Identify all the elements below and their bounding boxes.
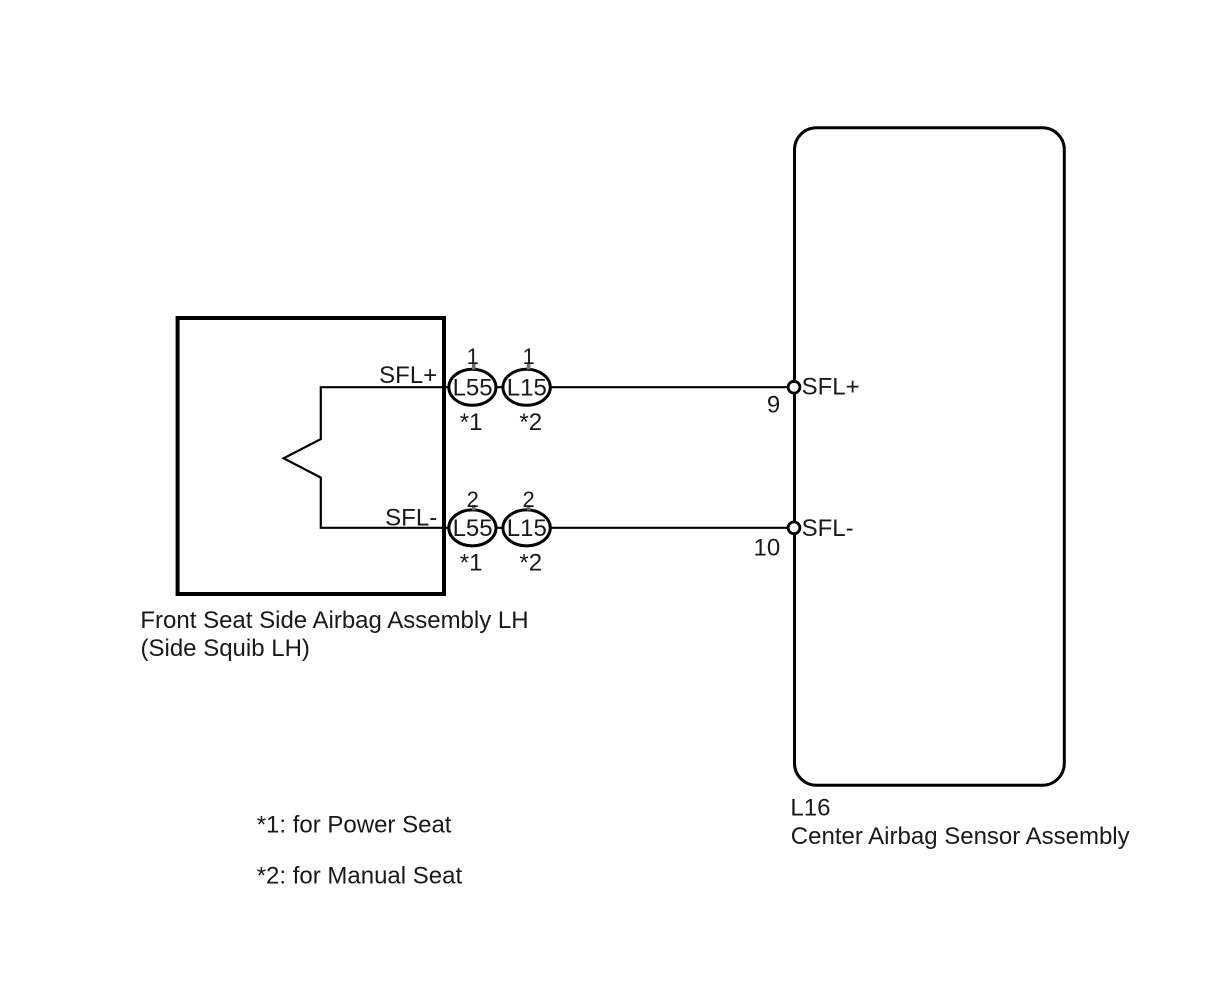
svg-text:*2: *2	[519, 549, 542, 576]
svg-text:SFL-: SFL-	[802, 515, 854, 542]
svg-text:*1: *1	[460, 409, 483, 436]
svg-text:1: 1	[467, 344, 479, 369]
svg-text:9: 9	[767, 391, 780, 418]
svg-text:*1: *1	[460, 549, 483, 576]
svg-text:L15: L15	[507, 375, 547, 402]
svg-text:1: 1	[522, 344, 534, 369]
svg-text:(Side Squib LH): (Side Squib LH)	[141, 635, 310, 662]
svg-text:L16: L16	[790, 795, 830, 822]
svg-text:2: 2	[522, 487, 534, 512]
svg-text:L55: L55	[453, 515, 493, 542]
svg-text:*2: *2	[519, 409, 542, 436]
svg-text:*2: for Manual Seat: *2: for Manual Seat	[257, 863, 463, 890]
svg-text:SFL+: SFL+	[379, 362, 437, 389]
svg-text:Center Airbag Sensor Assembly: Center Airbag Sensor Assembly	[791, 823, 1130, 850]
svg-text:*1: for Power Seat: *1: for Power Seat	[257, 811, 452, 838]
svg-text:Front Seat Side Airbag Assembl: Front Seat Side Airbag Assembly LH	[140, 607, 528, 634]
svg-text:10: 10	[753, 534, 780, 561]
svg-text:L55: L55	[453, 375, 493, 402]
svg-text:SFL-: SFL-	[385, 504, 437, 531]
svg-text:L15: L15	[507, 515, 547, 542]
svg-text:SFL+: SFL+	[802, 373, 860, 400]
svg-text:2: 2	[467, 487, 479, 512]
